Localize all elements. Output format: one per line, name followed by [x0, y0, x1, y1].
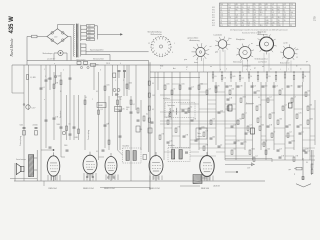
svg-text:220: 220	[88, 36, 91, 38]
svg-text:300: 300	[261, 124, 264, 126]
svg-text:0,3: 0,3	[279, 148, 281, 150]
svg-text:0,3: 0,3	[191, 86, 193, 88]
svg-text:5000: 5000	[115, 109, 119, 111]
svg-text:0,1: 0,1	[258, 97, 260, 99]
svg-text:300: 300	[288, 124, 291, 126]
svg-text:0,05: 0,05	[243, 141, 246, 143]
svg-text:A 2133: A 2133	[214, 185, 220, 188]
svg-text:e: e	[250, 69, 251, 71]
svg-text:0,1: 0,1	[85, 97, 87, 99]
svg-text:a: a	[44, 99, 45, 101]
svg-text:Klangfarbe: Klangfarbe	[236, 39, 245, 41]
svg-text:REN 904: REN 904	[49, 188, 58, 190]
svg-text:2: 2	[63, 70, 64, 72]
svg-text:35: 35	[284, 20, 286, 22]
svg-text:Lautstärke: Lautstärke	[214, 33, 222, 36]
svg-text:70: 70	[273, 131, 275, 133]
svg-text:an Masse: an Masse	[163, 98, 170, 100]
svg-text:30: 30	[306, 162, 308, 164]
svg-text:an 220 V∼: an 220 V∼	[47, 59, 56, 61]
svg-text:75: 75	[254, 25, 256, 27]
svg-text:220: 220	[54, 37, 57, 39]
svg-text:0,5: 0,5	[126, 109, 128, 111]
svg-text:95: 95	[236, 9, 238, 11]
svg-text:gn: gn	[306, 61, 308, 63]
svg-text:0,1: 0,1	[241, 77, 243, 79]
svg-text:0,2: 0,2	[284, 104, 286, 106]
svg-text:12: 12	[296, 57, 298, 59]
svg-text:2000: 2000	[64, 145, 68, 147]
svg-text:0,3: 0,3	[233, 124, 235, 126]
svg-text:220: 220	[278, 25, 281, 27]
svg-text:0,3: 0,3	[293, 96, 295, 98]
svg-text:EF9: EF9	[212, 7, 215, 9]
svg-text:0,2: 0,2	[269, 96, 271, 98]
svg-text:1,2: 1,2	[278, 12, 280, 14]
svg-text:5000: 5000	[271, 112, 275, 114]
svg-text:95: 95	[248, 12, 250, 14]
svg-text:0,3: 0,3	[101, 109, 103, 111]
svg-text:0,05: 0,05	[247, 131, 250, 133]
svg-text:70: 70	[218, 85, 220, 87]
svg-text:2000: 2000	[256, 90, 260, 92]
svg-text:0,1: 0,1	[244, 112, 246, 114]
svg-text:150: 150	[88, 32, 91, 34]
svg-text:35: 35	[272, 25, 274, 27]
svg-text:50: 50	[47, 78, 49, 80]
svg-text:0,1: 0,1	[146, 114, 148, 116]
svg-text:240: 240	[88, 39, 91, 41]
svg-text:0,1: 0,1	[301, 131, 303, 133]
svg-text:0,5: 0,5	[214, 76, 216, 78]
svg-text:0,05: 0,05	[106, 84, 109, 86]
svg-text:300: 300	[200, 83, 203, 85]
svg-text:500: 500	[239, 118, 242, 120]
svg-text:0,05: 0,05	[201, 126, 204, 128]
svg-text:0,5: 0,5	[69, 124, 71, 126]
svg-text:50: 50	[281, 88, 283, 90]
svg-text:0,5: 0,5	[268, 76, 270, 78]
svg-text:0,3: 0,3	[254, 85, 256, 87]
svg-text:EL3: EL3	[212, 12, 215, 14]
svg-text:ws: ws	[270, 69, 272, 71]
svg-text:63: 63	[260, 15, 262, 17]
svg-text:RENS 1234: RENS 1234	[149, 188, 160, 190]
svg-text:2000: 2000	[128, 82, 132, 84]
svg-text:5: 5	[160, 68, 161, 70]
svg-text:Ortsempfang: Ortsempfang	[19, 136, 22, 146]
svg-text:gelb: gelb	[215, 52, 218, 54]
svg-text:100: 100	[212, 118, 215, 120]
svg-text:50: 50	[120, 99, 122, 101]
svg-text:Skalenlampe: Skalenlampe	[43, 53, 53, 55]
svg-text:EF9: EF9	[212, 25, 215, 27]
svg-text:ge: ge	[254, 68, 256, 70]
svg-text:5000: 5000	[291, 140, 295, 142]
svg-text:4: 4	[120, 63, 121, 65]
svg-text:d: d	[220, 69, 221, 71]
svg-text:0,3: 0,3	[249, 124, 251, 126]
svg-text:10: 10	[250, 76, 252, 78]
svg-text:φ: φ	[294, 174, 295, 176]
svg-text:2x5000: 2x5000	[33, 125, 38, 127]
svg-text:2000: 2000	[229, 85, 233, 87]
svg-text:0,1 MΩ: 0,1 MΩ	[30, 77, 36, 79]
svg-text:0,25: 0,25	[169, 140, 172, 142]
svg-text:5000: 5000	[20, 125, 24, 127]
svg-text:10: 10	[265, 140, 267, 142]
svg-text:270: 270	[313, 16, 317, 21]
svg-text:4,2: 4,2	[290, 17, 292, 19]
svg-text:500 pF: 500 pF	[117, 97, 122, 99]
svg-text:blau: blau	[229, 38, 232, 40]
svg-text:Abstimmung: Abstimmung	[258, 33, 268, 36]
svg-text:0,2: 0,2	[255, 155, 257, 157]
svg-text:Spannungswähler: Spannungswähler	[90, 49, 104, 52]
svg-text:0,05: 0,05	[232, 76, 235, 78]
svg-text:10: 10	[190, 106, 192, 108]
svg-text:Fernempfang: Fernempfang	[87, 130, 90, 140]
svg-text:0,5: 0,5	[233, 148, 235, 150]
svg-text:Freischwinger: Freischwinger	[16, 159, 26, 161]
svg-text:0,3: 0,3	[197, 138, 199, 140]
svg-text:12: 12	[148, 43, 150, 45]
svg-text:gez: gez	[289, 169, 292, 171]
svg-text:0,05: 0,05	[166, 83, 169, 85]
svg-text:0,1: 0,1	[96, 91, 98, 93]
svg-text:EF9: EF9	[212, 17, 215, 19]
svg-text:0,25: 0,25	[298, 112, 301, 114]
svg-text:500: 500	[187, 110, 190, 112]
svg-text:300: 300	[279, 118, 282, 120]
svg-text:12: 12	[236, 25, 238, 27]
svg-text:500: 500	[267, 148, 270, 150]
svg-text:5000: 5000	[58, 76, 62, 78]
svg-text:50: 50	[152, 83, 154, 85]
svg-text:RENS 1204: RENS 1204	[104, 188, 115, 190]
svg-text:0,05: 0,05	[181, 83, 184, 85]
svg-text:50: 50	[173, 88, 175, 90]
svg-text:5000: 5000	[251, 148, 255, 150]
svg-text:100: 100	[307, 90, 310, 92]
svg-text:8: 8	[266, 9, 267, 11]
svg-text:110: 110	[260, 25, 263, 27]
svg-text:RENS 1204: RENS 1204	[83, 188, 94, 190]
svg-text:0,1: 0,1	[43, 87, 45, 89]
svg-text:Netzanschluß: Netzanschluß	[93, 58, 104, 61]
svg-text:500: 500	[265, 85, 268, 87]
svg-text:0,2: 0,2	[289, 131, 291, 133]
svg-text:Antrieb der: Antrieb der	[258, 31, 267, 34]
svg-text:Abstimmung: Abstimmung	[190, 39, 200, 42]
svg-text:3: 3	[100, 70, 101, 72]
svg-text:Nord Mende: Nord Mende	[10, 38, 14, 57]
svg-text:ca 30: ca 30	[283, 42, 287, 44]
svg-text:gelb: gelb	[296, 49, 299, 51]
svg-text:12: 12	[248, 25, 250, 27]
svg-text:110: 110	[88, 26, 91, 28]
svg-text:5000: 5000	[309, 118, 313, 120]
svg-text:b: b	[118, 94, 119, 96]
svg-text:300: 300	[212, 136, 215, 138]
svg-text:125: 125	[88, 29, 91, 31]
svg-text:50: 50	[304, 76, 306, 78]
svg-text:300: 300	[309, 104, 312, 106]
svg-text:0,3: 0,3	[276, 85, 278, 87]
svg-text:0,3: 0,3	[220, 25, 222, 27]
svg-text:4: 4	[108, 123, 109, 125]
svg-text:100: 100	[220, 110, 223, 112]
svg-text:EL3: EL3	[212, 22, 215, 24]
svg-text:Wellenschalter: Wellenschalter	[151, 33, 163, 36]
svg-text:0,2: 0,2	[228, 25, 230, 27]
svg-text:12: 12	[266, 25, 268, 27]
svg-text:RES 964: RES 964	[201, 188, 210, 190]
svg-text:50000: 50000	[98, 105, 103, 107]
svg-text:0,3: 0,3	[208, 88, 210, 90]
svg-text:5000: 5000	[126, 107, 130, 109]
svg-text:435 W: 435 W	[9, 16, 15, 34]
svg-text:50: 50	[301, 85, 303, 87]
svg-text:0,2: 0,2	[259, 116, 261, 118]
svg-text:2000: 2000	[242, 96, 246, 98]
svg-text:0,25: 0,25	[236, 140, 239, 142]
svg-text:gn: gn	[186, 67, 188, 69]
svg-text:5000: 5000	[57, 124, 61, 126]
svg-text:1: 1	[44, 69, 45, 71]
svg-text:6,3: 6,3	[242, 25, 244, 27]
svg-text:0,25: 0,25	[305, 148, 308, 150]
svg-text:100: 100	[231, 88, 234, 90]
svg-text:Schalterstellung: Schalterstellung	[148, 30, 162, 33]
svg-text:0,1: 0,1	[96, 151, 98, 153]
svg-text:a: a	[54, 63, 55, 65]
svg-text:35: 35	[290, 25, 292, 27]
svg-text:300: 300	[299, 124, 302, 126]
svg-text:ws: ws	[251, 43, 253, 45]
svg-text:Sperrkreis: Sperrkreis	[60, 111, 62, 118]
svg-text:0,2: 0,2	[133, 104, 135, 106]
svg-text:10: 10	[220, 144, 222, 146]
svg-text:0,25: 0,25	[121, 108, 124, 110]
svg-text:EK2: EK2	[212, 9, 215, 11]
svg-text:0,1: 0,1	[169, 118, 171, 120]
svg-text:0,1: 0,1	[307, 150, 309, 152]
svg-text:0,1: 0,1	[152, 109, 154, 111]
